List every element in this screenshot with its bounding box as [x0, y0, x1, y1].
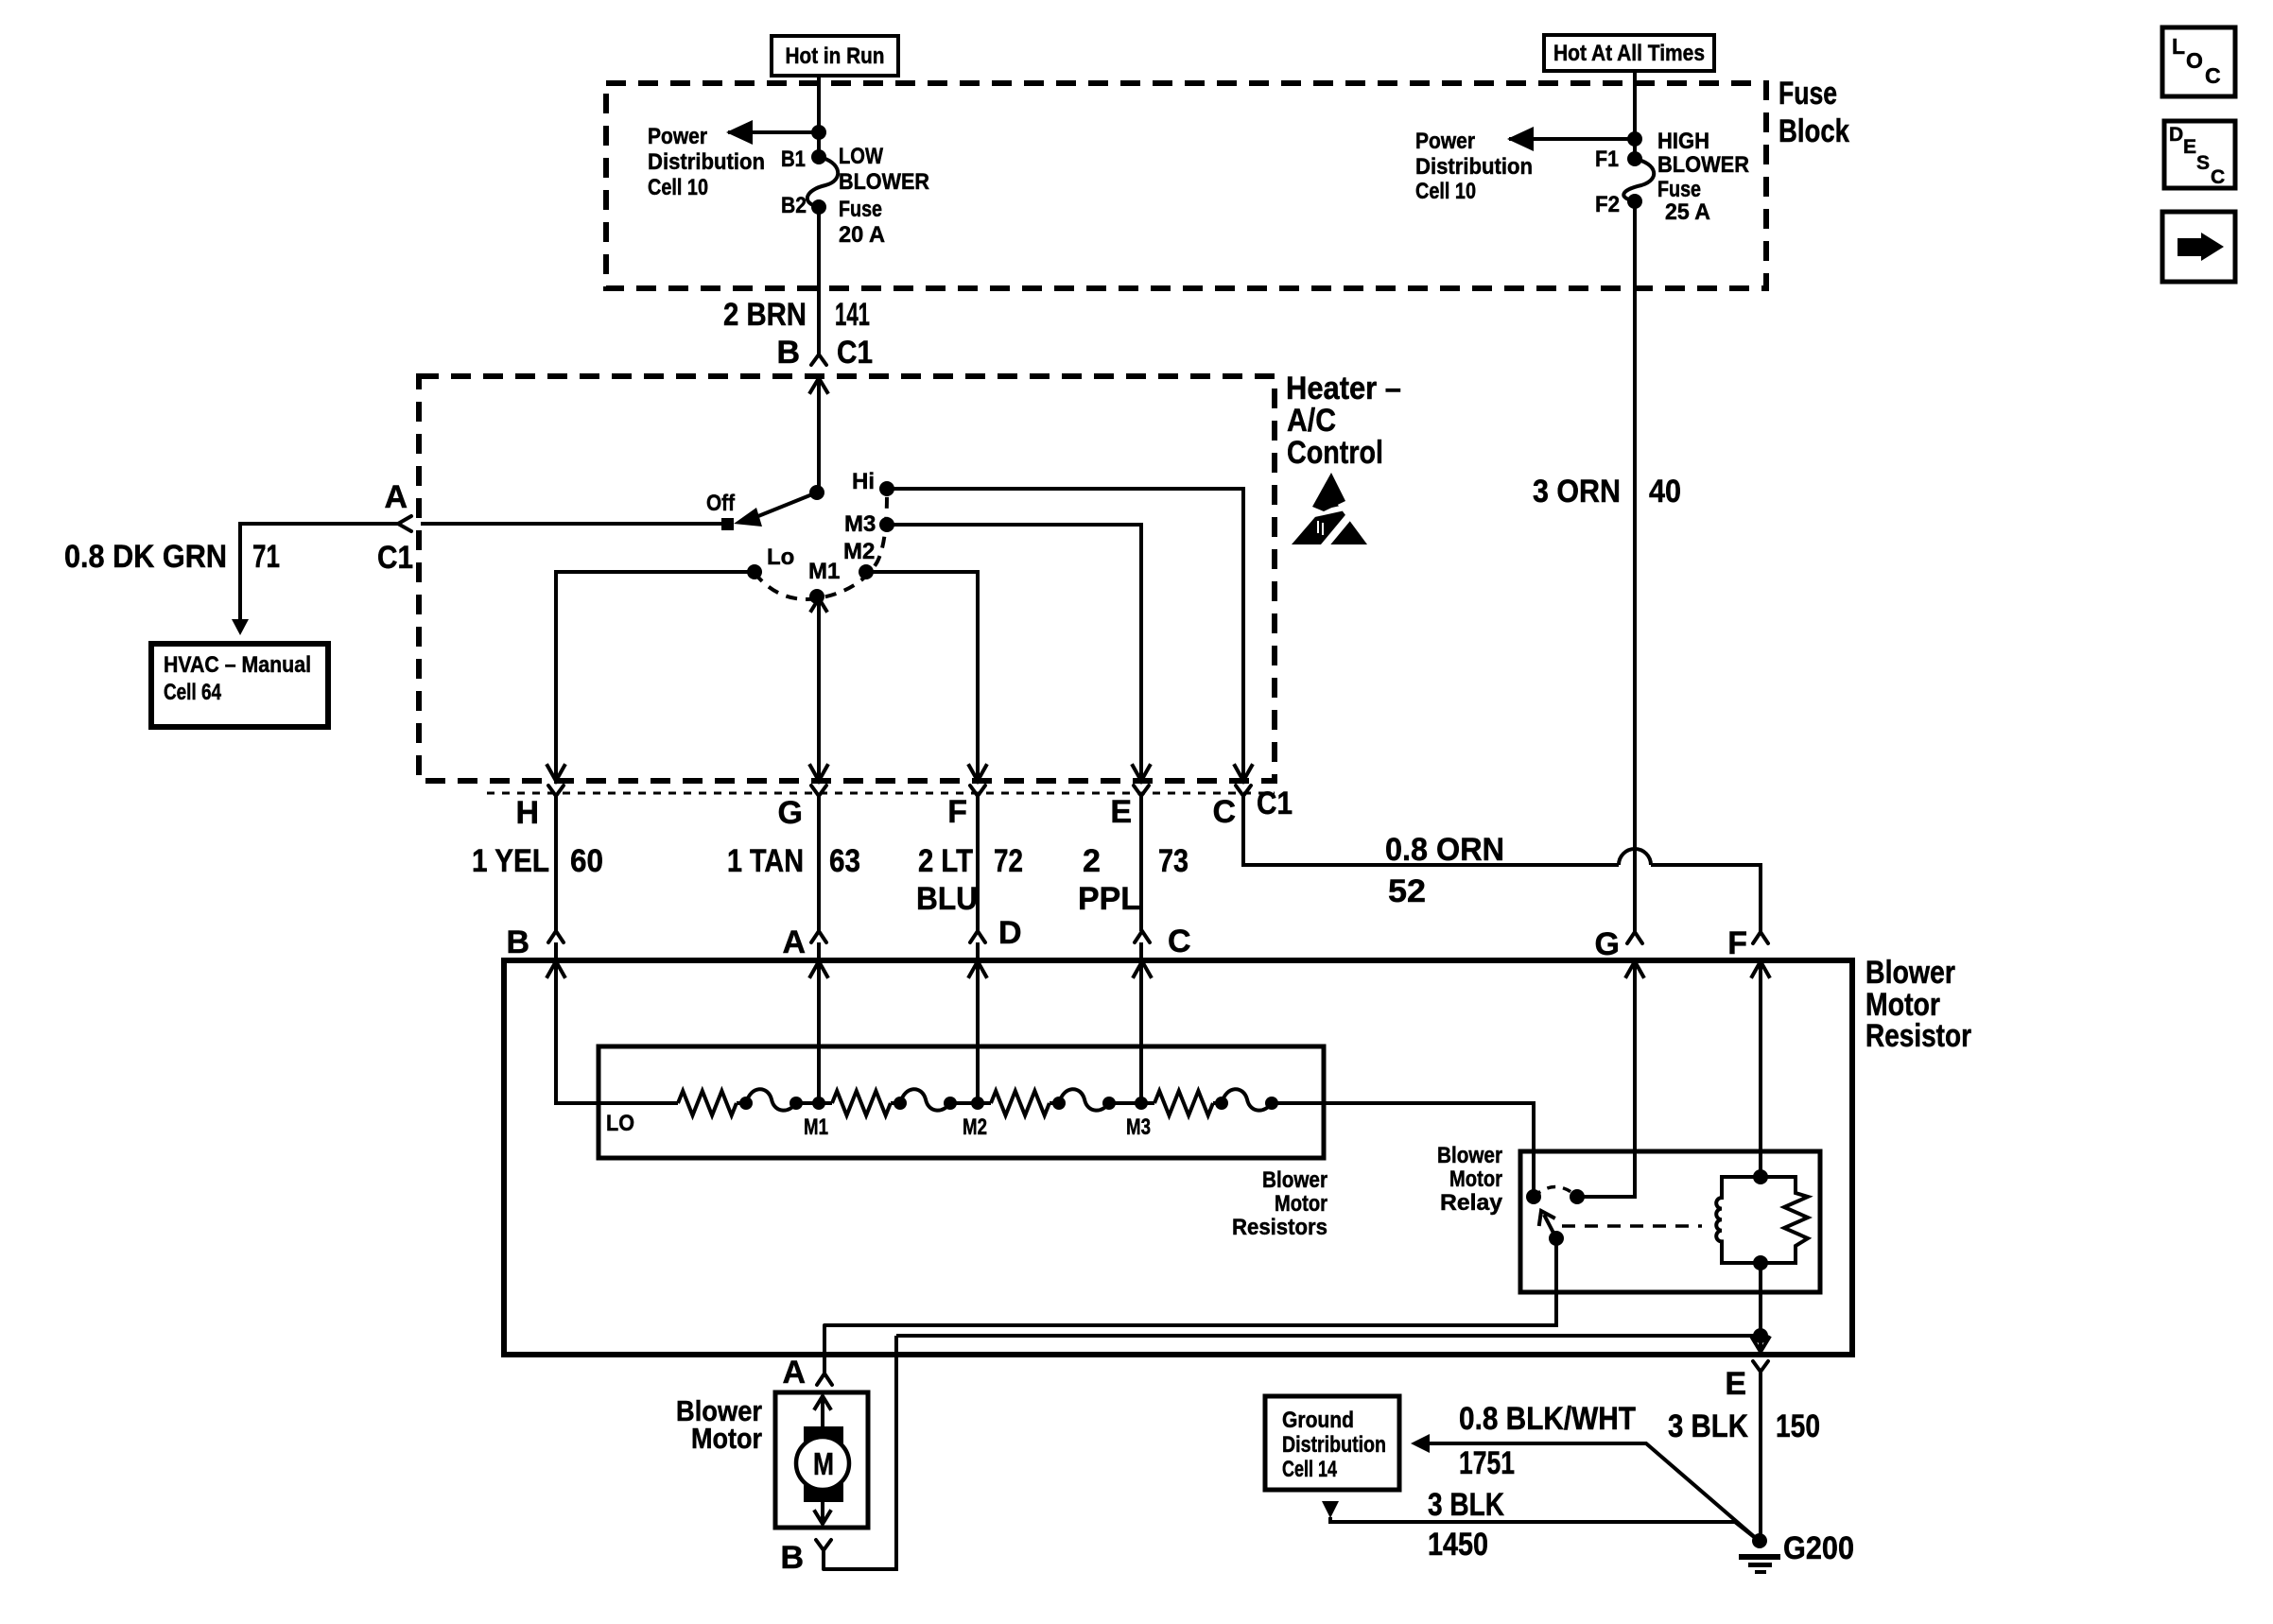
svg-text:0.8 DK GRN: 0.8 DK GRN [64, 539, 227, 575]
svg-text:2 BRN: 2 BRN [723, 297, 807, 333]
svg-text:E: E [2183, 136, 2196, 158]
svg-text:Hot in Run: Hot in Run [786, 43, 885, 69]
svg-text:1450: 1450 [1428, 1527, 1488, 1563]
svg-text:Distribution: Distribution [1282, 1432, 1386, 1458]
svg-text:3 ORN: 3 ORN [1533, 474, 1621, 510]
svg-text:M3: M3 [1126, 1114, 1151, 1140]
svg-text:Control: Control [1287, 435, 1383, 471]
svg-text:G: G [778, 795, 803, 831]
svg-text:Blower: Blower [1865, 955, 1955, 991]
svg-text:Distribution: Distribution [1415, 154, 1533, 180]
svg-text:Heater –: Heater – [1286, 371, 1401, 406]
svg-text:72: 72 [994, 843, 1023, 879]
svg-text:C: C [1212, 794, 1236, 830]
svg-text:0.8 ORN: 0.8 ORN [1385, 832, 1504, 868]
svg-text:G200: G200 [1783, 1530, 1854, 1566]
svg-text:Distribution: Distribution [648, 149, 765, 175]
svg-text:BLOWER: BLOWER [839, 169, 929, 195]
svg-text:Hot At All Times: Hot At All Times [1553, 41, 1705, 66]
svg-text:D: D [998, 915, 1022, 951]
svg-text:S: S [2196, 152, 2210, 174]
svg-text:40: 40 [1649, 474, 1681, 510]
svg-text:52: 52 [1388, 873, 1426, 909]
svg-text:C1: C1 [377, 540, 413, 576]
svg-text:L: L [2172, 34, 2185, 59]
svg-text:73: 73 [1158, 843, 1189, 879]
svg-text:2: 2 [1083, 843, 1101, 879]
svg-text:C: C [2205, 63, 2221, 88]
svg-text:BLOWER: BLOWER [1657, 152, 1749, 178]
svg-text:O: O [2186, 48, 2203, 73]
svg-text:M1: M1 [808, 559, 840, 584]
svg-text:B1: B1 [781, 147, 806, 172]
svg-text:Hi: Hi [852, 469, 875, 494]
svg-text:C: C [1168, 924, 1191, 959]
svg-text:LOW: LOW [839, 144, 883, 169]
svg-text:63: 63 [829, 843, 860, 879]
svg-text:F: F [947, 794, 967, 830]
svg-text:A/C: A/C [1287, 403, 1336, 439]
svg-text:25 A: 25 A [1665, 199, 1710, 225]
svg-text:B: B [776, 335, 800, 371]
svg-text:Power: Power [1415, 129, 1475, 154]
svg-text:150: 150 [1776, 1408, 1820, 1444]
svg-text:Off: Off [706, 491, 736, 516]
svg-text:C: C [2211, 166, 2225, 188]
svg-text:2 LT: 2 LT [918, 843, 973, 879]
svg-text:B2: B2 [781, 193, 807, 218]
svg-text:BLU: BLU [916, 881, 978, 917]
svg-text:3 BLK: 3 BLK [1428, 1487, 1504, 1523]
svg-text:M2: M2 [843, 539, 875, 564]
svg-text:20 A: 20 A [839, 222, 885, 248]
svg-text:F: F [1727, 925, 1747, 961]
svg-text:H: H [515, 795, 539, 831]
svg-text:1 YEL: 1 YEL [472, 843, 549, 879]
svg-text:Motor: Motor [691, 1422, 762, 1455]
svg-text:Fuse: Fuse [839, 197, 882, 222]
svg-text:M3: M3 [844, 511, 876, 537]
svg-text:141: 141 [835, 297, 870, 333]
svg-text:Cell 10: Cell 10 [648, 175, 708, 200]
svg-text:Cell 14: Cell 14 [1282, 1457, 1337, 1482]
svg-text:M2: M2 [963, 1114, 987, 1140]
svg-text:A: A [782, 1355, 806, 1391]
svg-text:Block: Block [1778, 113, 1849, 149]
svg-text:Cell 10: Cell 10 [1415, 179, 1476, 204]
svg-text:F1: F1 [1595, 147, 1619, 172]
svg-text:C1: C1 [837, 335, 873, 371]
svg-text:D: D [2169, 124, 2183, 146]
svg-text:Blower: Blower [1262, 1167, 1327, 1193]
svg-text:1751: 1751 [1459, 1445, 1515, 1481]
svg-text:Fuse: Fuse [1778, 76, 1837, 112]
svg-text:Motor: Motor [1449, 1166, 1502, 1192]
svg-text:Motor: Motor [1275, 1191, 1327, 1217]
svg-text:Power: Power [648, 124, 707, 149]
svg-text:PPL: PPL [1078, 881, 1140, 917]
svg-text:3 BLK: 3 BLK [1668, 1408, 1748, 1444]
svg-text:E: E [1110, 794, 1132, 830]
svg-text:Lo: Lo [767, 544, 794, 570]
svg-text:LO: LO [606, 1111, 634, 1136]
svg-text:M: M [813, 1446, 834, 1481]
svg-text:1 TAN: 1 TAN [727, 843, 804, 879]
svg-text:A: A [782, 924, 806, 960]
svg-text:Blower: Blower [1437, 1143, 1502, 1168]
svg-text:Relay: Relay [1440, 1190, 1503, 1216]
svg-text:M1: M1 [804, 1114, 828, 1140]
svg-text:60: 60 [570, 843, 603, 879]
svg-text:C1: C1 [1257, 786, 1293, 821]
svg-text:Ground: Ground [1282, 1408, 1354, 1433]
svg-text:B: B [780, 1540, 804, 1576]
svg-text:71: 71 [252, 539, 280, 575]
svg-text:0.8 BLK/WHT: 0.8 BLK/WHT [1459, 1401, 1636, 1437]
svg-text:F2: F2 [1595, 192, 1620, 217]
svg-text:E: E [1725, 1366, 1746, 1402]
svg-text:G: G [1595, 926, 1620, 962]
svg-text:Resistor: Resistor [1865, 1018, 1971, 1054]
svg-text:Fuse: Fuse [1657, 177, 1701, 202]
svg-text:Cell 64: Cell 64 [164, 680, 222, 705]
svg-text:A: A [384, 479, 408, 515]
svg-text:B: B [506, 924, 529, 960]
svg-text:HIGH: HIGH [1657, 129, 1709, 154]
svg-text:HVAC – Manual: HVAC – Manual [164, 652, 311, 678]
svg-text:Resistors: Resistors [1232, 1215, 1327, 1240]
